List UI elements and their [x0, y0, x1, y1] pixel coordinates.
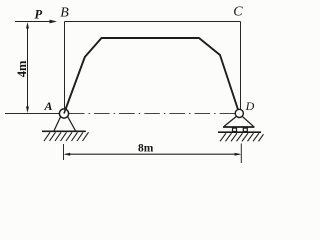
svg-text:A: A [44, 99, 53, 113]
dimension line 4m (vertical with arrows) [26, 22, 29, 113]
label D [245, 99, 255, 113]
roller support D: triangle [223, 116, 255, 127]
svg-text:C: C [233, 5, 243, 20]
label 4m (rotated) [15, 60, 29, 77]
svg-text:4m: 4m [15, 60, 29, 77]
wire: extension line at A level [5, 113, 60, 115]
roller support D: rollers [233, 128, 248, 131]
svg-text:P: P [35, 8, 43, 22]
dimension line 8m (horizontal with arrows) [64, 153, 242, 156]
label P [35, 8, 43, 22]
pin support A: hinge circle [59, 109, 68, 118]
wire: left tie line B-A [64, 22, 66, 110]
svg-text:8m: 8m [138, 142, 154, 154]
pin support A: legs [54, 116, 76, 130]
label 8m [138, 142, 154, 154]
wire: extension line below D [240, 144, 242, 164]
pin support A: member stub into hinge [64, 106, 67, 113]
label C [233, 5, 243, 20]
wire: right tie line C-D [240, 22, 242, 111]
centerline A-D (dash-dot) [69, 112, 235, 114]
ground at A [42, 131, 89, 141]
wire: top tie line B-C [65, 21, 241, 23]
svg-text:D: D [245, 99, 255, 113]
force arrow P [15, 20, 57, 24]
roller support D: hinge circle [235, 109, 243, 117]
ground at D [218, 132, 264, 141]
frame member polyline A-knee-top chord-knee-D [64, 38, 239, 114]
label A [44, 99, 53, 113]
wire: extension line below A [63, 144, 65, 160]
svg-text:B: B [60, 6, 69, 21]
label B [60, 6, 69, 21]
